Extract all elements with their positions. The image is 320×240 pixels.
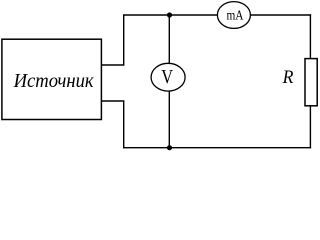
source box (Источник) (2, 39, 102, 119)
wire left vertical top (123, 14, 125, 65)
wire right vertical bottom (from resistor) (309, 104, 311, 148)
wire left vertical bottom (123, 101, 125, 148)
svg-text:V: V (161, 66, 173, 88)
junction node bottom (voltmeter tap) (167, 145, 172, 150)
wire top rail (node A: source + to ammeter) (124, 14, 218, 16)
wire source top terminal (100, 64, 124, 66)
svg-text:R: R (282, 67, 294, 88)
wire right vertical top (to resistor) (309, 14, 311, 59)
junction node top (voltmeter tap) (167, 12, 172, 17)
wire source bottom terminal (100, 100, 124, 102)
svg-text:mA: mA (227, 7, 244, 22)
wire bottom rail (123, 147, 311, 149)
ammeter mA (meter circle) (217, 2, 250, 29)
wire voltmeter bottom lead (168, 90, 170, 148)
wire top rail right (ammeter to resistor top) (250, 14, 311, 16)
svg-text:Источник: Источник (13, 70, 94, 92)
resistor R (rectangle body) (305, 59, 317, 106)
voltmeter V (meter circle) (151, 63, 185, 91)
wire voltmeter top lead (168, 15, 170, 64)
